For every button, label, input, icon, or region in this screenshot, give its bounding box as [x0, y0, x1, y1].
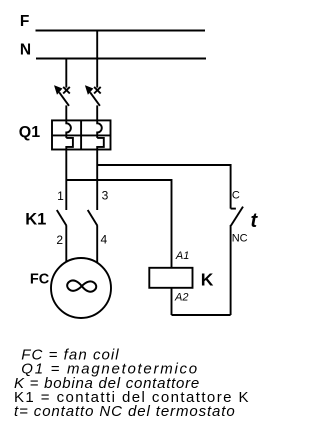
wire branch to thermostat contact (y=165)	[97, 165, 230, 209]
svg-text:4: 4	[101, 233, 108, 247]
svg-text:2: 2	[56, 233, 63, 247]
pin label A2	[174, 291, 188, 303]
svg-text:t= contatto NC del termostato: t= contatto NC del termostato	[14, 403, 236, 420]
label t	[251, 210, 259, 232]
thermostat contact t: pin label C	[232, 190, 240, 202]
svg-text:N: N	[20, 41, 31, 58]
net F label	[20, 13, 29, 30]
svg-text:NC: NC	[232, 233, 248, 245]
wire Q1 pole1 out down to K1 contact 1	[65, 150, 67, 211]
svg-text:FC: FC	[30, 272, 50, 288]
wire F drop to Q1 pole 2	[96, 31, 98, 88]
pin label 4	[101, 233, 108, 247]
pin label A1	[175, 250, 189, 262]
breaker Q1 pole 2 thermal element (hook)	[97, 138, 104, 151]
wire t contact down to bottom rail	[230, 225, 232, 315]
coil K box	[149, 268, 192, 288]
label Q1	[19, 124, 40, 141]
wire K1 contact 2 down to FC	[65, 226, 67, 263]
wire branch to coil circuit (y=180)	[66, 180, 171, 268]
svg-text:Q1: Q1	[19, 124, 40, 141]
svg-text:K1: K1	[25, 210, 46, 228]
breaker Q1 pole 1 contact (X + blade)	[55, 87, 70, 122]
net N label	[20, 41, 31, 58]
label K1	[25, 210, 46, 228]
breaker Q1 pole 2 magnetic element (semicircle)	[97, 121, 102, 138]
svg-text:C: C	[232, 190, 240, 202]
breaker Q1 pole 1 thermal element (hook)	[66, 138, 73, 151]
pin label 1	[57, 189, 64, 203]
svg-text:A1: A1	[175, 250, 189, 262]
thermostat contact t: fixed seat	[231, 208, 236, 210]
svg-text:1: 1	[57, 189, 64, 203]
thermostat contact t: pin label NC	[232, 233, 248, 245]
motor FC circle	[51, 258, 111, 318]
svg-text:F: F	[20, 13, 29, 30]
svg-text:3: 3	[102, 188, 109, 202]
thermostat contact t: NC blade	[231, 207, 243, 226]
wire F line	[36, 30, 206, 32]
pin label 2	[56, 233, 63, 247]
breaker Q1 pole 1 magnetic element (semicircle)	[66, 121, 71, 138]
label K	[201, 270, 214, 290]
contactor contact K1 pole 1-2 blade	[57, 210, 67, 226]
breaker Q1 pole 2 contact (X + blade)	[86, 87, 101, 122]
pin label 3	[102, 188, 109, 202]
wire N drop to Q1 pole 1	[65, 59, 67, 88]
svg-text:A2: A2	[174, 291, 188, 303]
wire coil A2 down	[171, 288, 173, 315]
svg-text:K: K	[201, 270, 214, 290]
contactor contact K1 pole 3-4 blade	[88, 210, 98, 226]
breaker Q1 trip-unit box	[52, 120, 111, 149]
label FC	[30, 272, 50, 288]
motor FC infinity symbol	[67, 280, 97, 292]
wire N line	[36, 58, 206, 60]
wire bottom rail	[172, 314, 231, 316]
wire K1 contact 4 down to FC	[96, 226, 98, 263]
wire Q1 pole2 out down to K1 contact 3	[96, 150, 98, 211]
